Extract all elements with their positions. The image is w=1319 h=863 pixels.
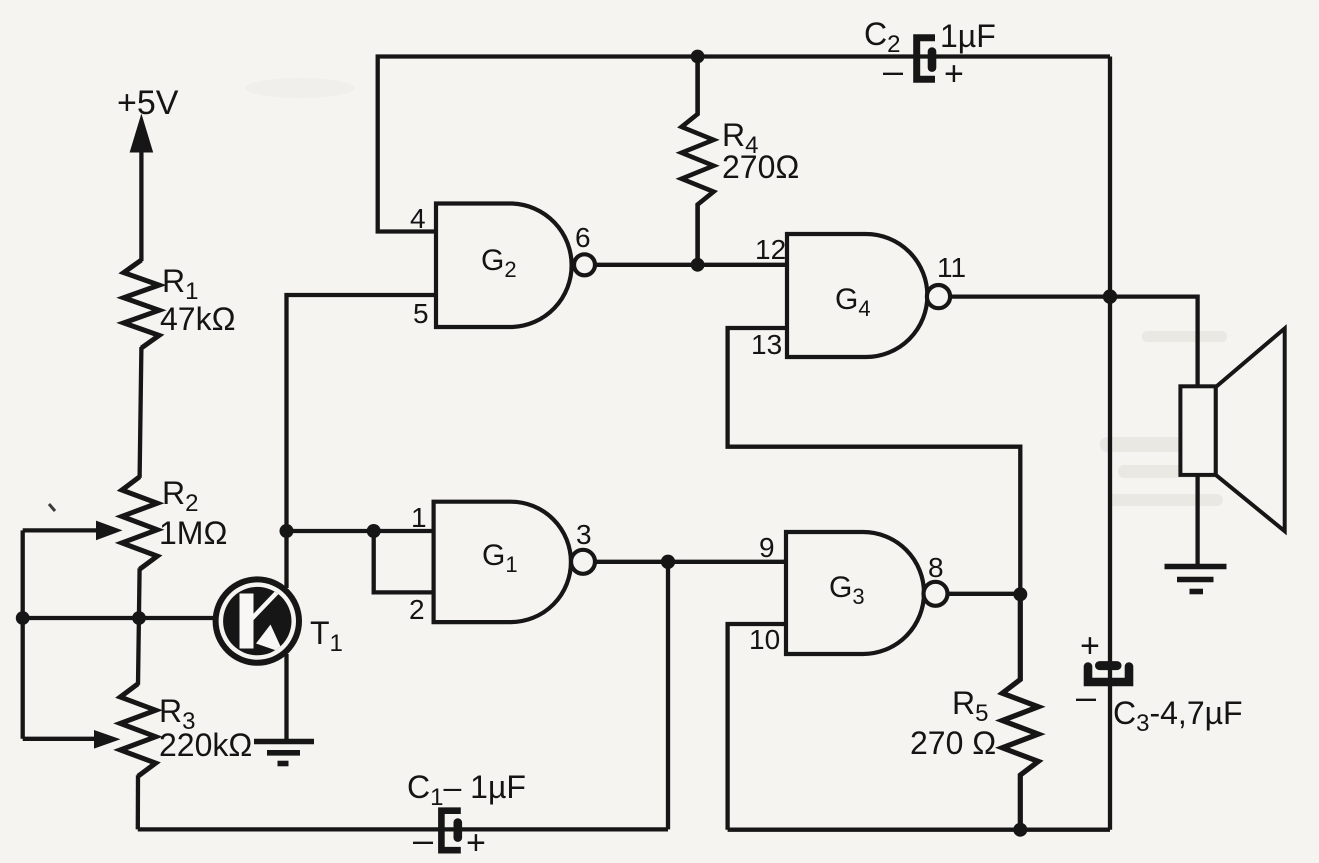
wire R3 wiper arm — [23, 737, 98, 741]
nand gate G3 output bubble (pin 8) — [924, 582, 948, 606]
speaker body rectangle — [1180, 386, 1215, 475]
node wiper bus / base line — [16, 611, 30, 625]
nand gate G1 body — [434, 502, 571, 622]
wire G2 output to G4 pin12 — [594, 263, 788, 267]
nand gate G2 body — [436, 204, 572, 328]
svg-text:2: 2 — [409, 594, 425, 625]
svg-text:9: 9 — [759, 532, 775, 563]
stray ink speck — [49, 504, 55, 511]
node top wire / R4 — [691, 50, 705, 64]
svg-text:C1– 1µF: C1– 1µF — [407, 769, 526, 811]
capacitor C1 positive bar plate — [453, 823, 462, 838]
svg-text:12: 12 — [755, 234, 786, 265]
resistor R1 zigzag — [124, 260, 159, 348]
svg-text:–: – — [883, 50, 903, 91]
wire bottom right run — [728, 828, 1110, 832]
GATES — [434, 204, 951, 655]
nand gate G4 body — [787, 234, 927, 357]
capacitor C1 negative cup plate — [441, 811, 457, 851]
svg-text:C3-4,7µF: C3-4,7µF — [1113, 695, 1243, 737]
arrowhead R2 wiper — [96, 521, 123, 541]
nand gate G1 output bubble (pin 3) — [571, 550, 595, 574]
wire left wiper bus — [21, 530, 25, 738]
svg-text:220kΩ: 220kΩ — [159, 727, 252, 763]
node G1 pin1 / pin2 tie — [367, 524, 381, 538]
wire G2 pin5 to T1 collector — [287, 295, 437, 588]
svg-text:5: 5 — [413, 298, 429, 329]
svg-text:R5: R5 — [952, 685, 988, 727]
svg-text:+: + — [1080, 627, 1100, 665]
transistor T1 white gap ring — [219, 582, 296, 659]
svg-text:13: 13 — [751, 329, 782, 360]
wire collector node to G1 pin1 — [287, 529, 437, 533]
nand gate G3 body — [786, 532, 924, 654]
capacitor C3 positive bar plate — [1100, 661, 1118, 670]
svg-text:8: 8 — [928, 552, 944, 583]
node C2 line / G4 output — [1103, 289, 1117, 303]
svg-text:R2: R2 — [162, 475, 198, 517]
svg-text:3: 3 — [576, 519, 592, 550]
svg-text:+5V: +5V — [117, 84, 179, 122]
wire G4 output to speaker — [950, 297, 1198, 387]
svg-text:–: – — [413, 819, 433, 860]
svg-text:1MΩ: 1MΩ — [159, 515, 227, 551]
transistor T1 collector gap (white) — [252, 584, 286, 619]
node G1 out / G3 pin9 / riser — [661, 555, 675, 569]
wire R2 to R3 through base node — [138, 568, 140, 685]
wire speaker to ground — [1195, 475, 1199, 564]
node G3 out / R5 / pin13 route — [1013, 587, 1027, 601]
wire base line to T1 — [23, 616, 218, 620]
svg-text:+: + — [944, 55, 964, 93]
svg-text:11: 11 — [937, 252, 966, 283]
paper smudge artifacts — [1100, 331, 1270, 506]
svg-text:T1: T1 — [310, 615, 343, 657]
arrowhead R3 wiper — [94, 730, 121, 749]
svg-text:6: 6 — [575, 222, 591, 253]
resistor R4 zigzag with leads — [682, 57, 714, 266]
transistor T1 inner disc — [223, 587, 291, 655]
svg-text:R1: R1 — [162, 263, 198, 305]
potentiometer R2 zigzag — [122, 477, 157, 570]
wire T1 emitter to ground — [284, 654, 288, 741]
wire G4 pin13 to G3 output node — [728, 328, 1021, 594]
svg-text:270 Ω: 270 Ω — [910, 725, 996, 761]
wire C2 output down to G4 output node and on to C3 and bottom — [1108, 57, 1112, 830]
svg-text:–: – — [1076, 676, 1096, 717]
wire +5V arrow shaft — [139, 149, 143, 261]
wire node to bottom (C1 run riser) — [666, 562, 670, 830]
resistor R5 zigzag with leads — [1002, 594, 1038, 829]
arrowhead +5V supply — [130, 114, 154, 153]
wire top feedback (G2 pin4 to C2 line) — [378, 57, 1110, 232]
svg-text:+: + — [466, 824, 486, 862]
capacitor C2 positive bar plate — [928, 52, 937, 68]
wire G3 output — [947, 592, 1020, 596]
ground below T1 emitter — [254, 742, 314, 764]
svg-text:10: 10 — [749, 624, 780, 655]
svg-text:1µF: 1µF — [940, 18, 996, 54]
transistor T1 emitter arrow (white) — [256, 625, 284, 654]
wire R1 to R2 — [140, 347, 142, 478]
transistor T1 base bar (white) — [240, 594, 254, 649]
node R5 bottom / bottom wire — [1013, 823, 1027, 837]
PARTS — [120, 57, 1038, 830]
node divider chain / base line — [132, 611, 146, 625]
wire G3 pin10 loop to bottom — [728, 624, 788, 830]
capacitor C2 negative cup plate — [917, 38, 932, 80]
nand gate G2 output bubble (pin 6) — [574, 254, 595, 275]
wire G1 output to G3 pin9 — [594, 560, 788, 564]
transistor T1 outer ring — [213, 576, 302, 665]
wire G1 pin2 tie loop — [374, 531, 436, 592]
wire R2 wiper arm — [23, 528, 100, 532]
wire bottom left run through C1 — [138, 827, 668, 831]
svg-text:47kΩ: 47kΩ — [160, 301, 236, 337]
wire R3 to bottom corner — [136, 775, 140, 829]
capacitor C3 negative cup plate — [1088, 667, 1129, 683]
nand gate G4 output bubble (pin 11) — [927, 285, 950, 308]
node R4 / G2 out / G4 pin12 — [691, 258, 705, 272]
node collector / G1 pin1 wire — [280, 524, 294, 538]
speaker horn cone — [1216, 328, 1285, 531]
svg-text:1: 1 — [411, 502, 427, 533]
potentiometer R3 zigzag — [120, 684, 155, 777]
svg-text:270Ω: 270Ω — [722, 149, 799, 185]
svg-text:4: 4 — [410, 203, 426, 234]
ground below speaker — [1165, 567, 1227, 592]
